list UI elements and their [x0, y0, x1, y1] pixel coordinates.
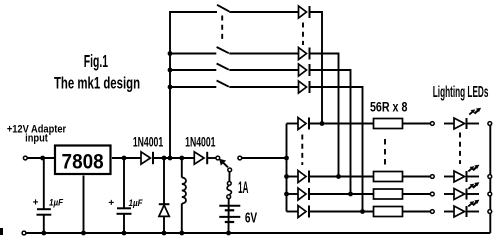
svg-text:1A: 1A: [238, 178, 248, 197]
svg-text:56R x 8: 56R x 8: [370, 99, 408, 115]
svg-text:+: +: [108, 198, 114, 209]
svg-text:1µF: 1µF: [128, 197, 143, 208]
svg-text:1N4001: 1N4001: [185, 134, 216, 150]
svg-text:+: +: [33, 198, 39, 209]
svg-text:Lighting LEDs: Lighting LEDs: [433, 83, 489, 101]
svg-text:7808: 7808: [62, 151, 104, 174]
svg-text:6V: 6V: [245, 208, 258, 226]
svg-text:input: input: [25, 133, 48, 145]
svg-text:1N4001: 1N4001: [133, 134, 164, 150]
svg-text:The mk1 design: The mk1 design: [54, 73, 140, 92]
svg-text:1µF: 1µF: [49, 197, 64, 208]
svg-text:Fig.1: Fig.1: [84, 52, 108, 71]
